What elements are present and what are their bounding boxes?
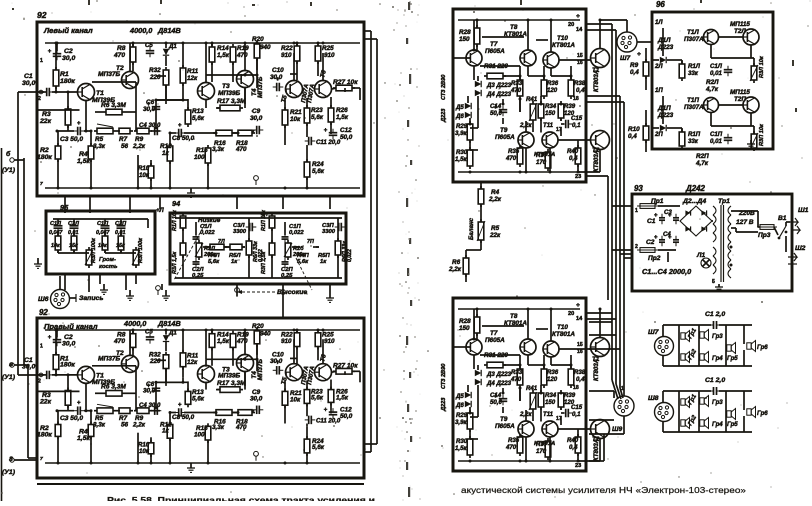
svg-text:150: 150 (459, 325, 470, 332)
svg-text:+: + (276, 359, 280, 366)
G2 label C1 2.0 (705, 377, 725, 384)
svg-text:150: 150 (545, 110, 556, 117)
OL label R31 220 (484, 63, 508, 70)
R2 wire R27 out (352, 371, 360, 382)
R2 capacitor C4 30.0 (151, 406, 162, 415)
L1 label T6 (319, 69, 328, 78)
svg-text:1П: 1П (655, 87, 663, 94)
OL wire grid mesh out (453, 20, 600, 172)
block frame 92 left channel (37, 22, 364, 196)
svg-text:R29: R29 (456, 123, 468, 130)
svg-text:7: 7 (40, 456, 43, 462)
wire psu int2 (658, 249, 676, 251)
wire terminal v (10, 363, 28, 367)
OL label T11 (543, 122, 554, 129)
svg-text:33к: 33к (688, 138, 699, 145)
svg-text:Ш1: Ш1 (798, 207, 809, 214)
L1 capacitor C1 input (37, 88, 53, 97)
label pin7П (307, 239, 314, 245)
G1 wire spk v5 (725, 347, 727, 349)
svg-text:Гр4: Гр4 (712, 421, 723, 428)
label C2 (646, 239, 655, 246)
svg-text:2,2к: 2,2к (132, 143, 146, 150)
G1 wire spk v4 (743, 325, 745, 366)
L1 capacitor C5 (145, 42, 154, 57)
svg-text:+: + (48, 334, 52, 341)
svg-text:Т9: Т9 (500, 416, 508, 423)
resistor R6Л tone (246, 238, 252, 258)
R2 capacitor C5 (145, 329, 154, 344)
OR resistor R37 170 (545, 438, 551, 460)
svg-text:В1: В1 (778, 215, 787, 222)
svg-text:С11 20,0: С11 20,0 (316, 139, 341, 146)
transistor T1П (704, 98, 719, 113)
wire mid bus v2 (615, 30, 617, 250)
L1 transistor T2 (122, 72, 139, 89)
G1 wire spk left (662, 325, 664, 366)
svg-text:С14: С14 (490, 392, 502, 399)
L1 resistor R5 3.3k (94, 124, 116, 134)
resistor R4Л tone (207, 244, 227, 250)
wire right bus stub top1 (364, 30, 371, 32)
R2 label T6 (319, 353, 328, 362)
R2 resistor R11 12k (180, 330, 186, 378)
svg-text:10к: 10к (139, 172, 150, 179)
label 92 (module id, left amp) (37, 10, 47, 20)
OR label T7 P605A (485, 330, 505, 344)
OR transistor T10 (543, 341, 559, 357)
G1 speaker Gr6 (747, 341, 769, 352)
L1 resistor R10 10k (148, 160, 154, 188)
top edge marks (12, 0, 797, 112)
svg-text:Гр6: Гр6 (757, 410, 768, 417)
L1 transistor T3 (198, 83, 215, 100)
page fold marks (406, 2, 412, 497)
R2 label R19 (236, 331, 249, 344)
OL resistor R34 150 (538, 101, 557, 121)
G2 speaker Gr4 (700, 418, 724, 429)
svg-text:С14: С14 (490, 103, 502, 110)
svg-text:Д1П: Д1П (657, 105, 671, 112)
wire protЛ b (667, 60, 682, 64)
wire interbox b4 (161, 284, 163, 290)
R2 wire R6 loop top (92, 366, 136, 411)
OR resistor R39 120 (558, 390, 576, 410)
svg-text:120: 120 (547, 376, 558, 383)
svg-text:С12: С12 (340, 127, 352, 134)
label C1Л (50, 221, 61, 227)
R2 label T5 (280, 376, 289, 385)
wire psu feed4 (624, 257, 632, 259)
svg-text:5,6к: 5,6к (312, 444, 325, 451)
svg-text:0,022: 0,022 (289, 230, 304, 236)
R2 wire fb drop (137, 433, 139, 463)
svg-text:180к: 180к (37, 431, 52, 438)
svg-text:5,6к: 5,6к (311, 395, 324, 402)
svg-text:0,047: 0,047 (96, 230, 110, 236)
OL wire out links2 (466, 57, 470, 59)
svg-text:0,022: 0,022 (347, 249, 353, 262)
OL wire out v7 (473, 66, 475, 80)
potentiometer R2Л tone (195, 240, 203, 260)
OL capacitor C14 50.0 (490, 103, 507, 117)
ground sym E (326, 292, 334, 302)
G1 connector Ш7 (655, 337, 674, 356)
resistor R3П 10k (750, 123, 765, 151)
svg-text:R10: R10 (628, 126, 640, 133)
wire protП a (662, 96, 664, 124)
label C3П tone (322, 223, 336, 235)
wire psu feed2 (612, 205, 632, 207)
svg-text:R14: R14 (217, 45, 229, 52)
svg-text:910: 910 (324, 338, 335, 345)
svg-text:Д5: Д5 (455, 104, 464, 111)
L1 label R26 (336, 107, 349, 121)
wire mid bus low3 (620, 254, 623, 398)
R2 resistor R27 10k (333, 369, 355, 375)
svg-text:15к: 15к (69, 243, 78, 249)
OR label T9 P605A (495, 416, 515, 430)
svg-text:Т9: Т9 (500, 127, 508, 134)
ground sym C (126, 290, 134, 300)
L1 resistor R22 910 (294, 43, 300, 80)
R2 label R32 220 (149, 352, 161, 365)
resistor R9 0.4 (643, 59, 649, 79)
svg-text:4000,0: 4000,0 (129, 26, 152, 35)
R2 resistor R12 1k (167, 422, 173, 464)
capacitor C1Л 0.01 (710, 63, 732, 77)
svg-text:1: 1 (635, 208, 638, 214)
label C2П tone (281, 267, 293, 279)
label R6Л rot (253, 241, 264, 262)
transformer Tr1 secondary (728, 206, 731, 278)
label R1П val (98, 243, 107, 249)
label pin1 psu (635, 208, 638, 214)
svg-text:Д223: Д223 (657, 112, 674, 119)
svg-text:МП37Б: МП37Б (257, 76, 264, 98)
transformer Tr1 core (721, 205, 724, 282)
svg-text:1к: 1к (231, 259, 238, 265)
svg-text:+: + (324, 127, 328, 134)
L1 label R24 (312, 161, 325, 175)
L1 wire emitter bus (57, 101, 160, 132)
resistor R1Л 33k (679, 61, 701, 81)
svg-text:П605А: П605А (485, 48, 505, 55)
svg-text:14: 14 (576, 27, 583, 33)
svg-text:С10: С10 (272, 67, 284, 74)
svg-text:220: 220 (149, 74, 161, 81)
capacitor C1П tone sym (282, 233, 289, 243)
wire mid stub4 (586, 101, 624, 103)
svg-text:1,5к: 1,5к (77, 158, 90, 165)
svg-text:15: 15 (577, 342, 583, 348)
L1 diode D1 zener (163, 43, 178, 66)
wire 95 out stub2 (135, 274, 137, 284)
label C1C4 2000 (642, 267, 691, 276)
svg-text:30,0: 30,0 (62, 55, 75, 62)
label R3П 100k rot (138, 237, 144, 263)
wire psu feed1 (612, 249, 632, 251)
L1 label C2 (62, 48, 75, 62)
svg-text:33к: 33к (688, 70, 699, 77)
G2 speaker Gr1 (681, 393, 699, 408)
svg-text:Д1Л: Д1Л (657, 37, 671, 44)
R2 resistor R24 5.6k (304, 426, 310, 463)
wire psu sh2 drop (785, 236, 787, 252)
svg-text:R30: R30 (456, 438, 468, 445)
OR label pin18 (573, 385, 579, 391)
svg-text:1: 1 (621, 386, 624, 392)
wire interbox b3 (125, 274, 127, 290)
wire psu int3 (712, 220, 713, 222)
R2 resistor R9 2.2k (134, 408, 152, 414)
svg-text:КТ803А: КТ803А (593, 70, 600, 92)
svg-text:МП37Б: МП37Б (98, 355, 121, 362)
label plus sh7 (637, 51, 641, 58)
L1 wire stage2 links (156, 100, 254, 133)
svg-text:16: 16 (577, 60, 583, 66)
R2 label R18 (235, 419, 248, 432)
L1 resistor R12 1k (167, 143, 173, 188)
wire protЛ a (662, 28, 664, 56)
OR transistor T11 (542, 421, 558, 437)
svg-text:0,4: 0,4 (628, 133, 637, 140)
transformer Tr1 primary (713, 206, 716, 242)
L1 label R11 12k (187, 68, 199, 82)
OR label pin16 (577, 349, 583, 355)
svg-text:1к: 1к (162, 428, 170, 435)
svg-text:+: + (654, 212, 658, 219)
ground sym D (162, 290, 170, 300)
connector Sh7 amp (617, 32, 637, 52)
svg-text:0,4: 0,4 (569, 155, 578, 162)
svg-text:10к: 10к (98, 243, 107, 249)
OL resistor R37 170 (545, 149, 551, 171)
text Левый канал (43, 26, 93, 35)
svg-text:С2: С2 (64, 48, 73, 55)
OR transistor T1 KT803A (591, 338, 610, 357)
L1 wire T4 links (216, 43, 257, 108)
L1 resistor R17 (217, 105, 243, 111)
svg-text:Ш6: Ш6 (38, 296, 49, 303)
OL transistor T8 (520, 50, 536, 66)
svg-text:3,3к: 3,3к (212, 146, 225, 153)
L1 label T4 vertical (251, 76, 264, 98)
wire protП b (667, 128, 682, 132)
OR resistor R34 150 (538, 390, 557, 410)
svg-text:30,0: 30,0 (143, 106, 156, 113)
svg-text:С1: С1 (647, 218, 656, 225)
label Pr3 (758, 232, 771, 239)
L1 transistor T1 (78, 84, 95, 101)
OR label T2 KT803A (592, 436, 600, 461)
OL diode D3 (475, 81, 512, 89)
svg-text:Рис. 5.58. Принципиальная схе: Рис. 5.58. Принципиальная схема тракта у… (107, 495, 375, 501)
OL resistor R39 120 (558, 101, 576, 121)
svg-text:Д6: Д6 (455, 113, 464, 120)
svg-text:Д1: Д1 (168, 43, 177, 50)
svg-text:R5: R5 (95, 136, 104, 143)
svg-text:30,0: 30,0 (143, 387, 156, 394)
svg-text:R33: R33 (511, 369, 523, 376)
OL label ST3 2V90 vertical (441, 74, 447, 100)
svg-text:R35: R35 (508, 148, 520, 155)
L1 transistor T5 (286, 81, 303, 98)
OR diode D6 (455, 401, 471, 409)
svg-text:МП37Б: МП37Б (98, 71, 121, 78)
wire sh9 stub b (589, 334, 616, 336)
wire mid bus v4 (623, 102, 625, 258)
label 1Л (655, 19, 663, 26)
svg-text:R4: R4 (491, 189, 500, 196)
svg-text:0,1: 0,1 (572, 411, 581, 418)
R2 label R12 (160, 421, 172, 434)
label 1П (655, 87, 663, 94)
R2 capacitor C6 30.0 (143, 381, 160, 395)
label R2П val (116, 243, 125, 249)
OL transistor T11 (542, 132, 558, 148)
svg-text:4Л: 4Л (260, 212, 268, 218)
OR wire col T1 (599, 309, 601, 337)
R2 resistor R19 470 (230, 331, 236, 360)
OR resistor R30 1.5k (455, 436, 473, 458)
svg-text:П307А: П307А (684, 36, 704, 43)
R2 label R23 (311, 388, 324, 401)
OL capacitor C15 0.1 (562, 115, 583, 129)
svg-text:R28: R28 (459, 29, 471, 36)
svg-text:С8 50,0: С8 50,0 (172, 135, 195, 142)
resistor R5 22k balance (477, 219, 501, 243)
label C2Л (68, 221, 79, 227)
svg-text:СТ3 2В90: СТ3 2В90 (441, 74, 447, 100)
resistor R2Л vol (71, 233, 77, 253)
potentiometer R2П tone (284, 240, 292, 260)
svg-text:R3Л 1,5к: R3Л 1,5к (172, 252, 178, 274)
svg-text:R36: R36 (547, 369, 559, 376)
OR wire out bottom rail (458, 460, 580, 462)
L1 label R1 (60, 71, 75, 85)
OR wire emitters (526, 437, 600, 461)
wire psu bottom link (667, 252, 669, 262)
svg-text:Пр3: Пр3 (758, 232, 771, 239)
OR block frame output stage (453, 298, 586, 471)
wire psu right3 (786, 222, 790, 226)
L1 label T5 (280, 94, 289, 103)
OL wire emitters (526, 148, 600, 172)
OL transistor T9 (518, 132, 534, 148)
wire mid stub2 (586, 29, 616, 31)
OR capacitor C15 0.1 (562, 404, 583, 418)
svg-text:3300: 3300 (322, 229, 336, 235)
resistor R1Л tone (172, 210, 186, 231)
wire left margin v2 (23, 158, 25, 365)
OL label T9 P605A (495, 127, 515, 141)
R2 label R16 (212, 419, 226, 432)
L1 resistor R3 (65, 92, 71, 131)
OL resistor R38 0.4 (568, 77, 586, 99)
svg-text:940: 940 (260, 44, 271, 51)
label Balans vertical (468, 217, 475, 240)
wire toneП h1 (292, 246, 319, 248)
L1 label R8 470 (113, 45, 126, 59)
svg-text:+: + (576, 302, 580, 309)
svg-text:С1...С4 2000,0: С1...С4 2000,0 (642, 267, 691, 276)
svg-text:кость: кость (99, 264, 118, 270)
svg-text:Ш8: Ш8 (648, 395, 659, 402)
label C1Л tone (200, 224, 215, 236)
svg-text:910: 910 (324, 52, 335, 59)
R2 label R7 (119, 415, 129, 428)
L1 capacitor C4 30.0 (151, 127, 162, 136)
L1 label R7 (119, 136, 129, 150)
L1 resistor R7 56 (116, 128, 133, 134)
label 95 (60, 203, 69, 212)
L1 resistor R1 (53, 43, 59, 92)
svg-text:R23: R23 (311, 107, 323, 114)
L1 label T1 (92, 90, 115, 104)
svg-text:220: 220 (149, 358, 161, 365)
OL transistor T10 (543, 52, 559, 68)
svg-text:10к: 10к (290, 397, 301, 404)
svg-text:П605А: П605А (485, 337, 505, 344)
svg-text:Т1Л: Т1Л (687, 29, 699, 36)
G1 speaker Gr1 (681, 327, 699, 342)
R2 resistor R5 3.3k (94, 404, 116, 413)
R2 label R15 (194, 425, 208, 438)
label Sh9 (612, 426, 622, 433)
svg-text:С5: С5 (145, 329, 153, 336)
R2 label R5 (93, 415, 106, 428)
OL label T11 type (534, 152, 555, 158)
block frame 94 (170, 213, 346, 284)
potentiometer R3Л 100k (85, 247, 93, 268)
R2 ground bottom rail (187, 463, 195, 472)
svg-text:30,0: 30,0 (22, 80, 35, 87)
page left edge line (1, 148, 3, 501)
svg-text:470: 470 (505, 444, 517, 451)
svg-text:1,5к: 1,5к (217, 338, 230, 345)
svg-text:R24: R24 (312, 161, 324, 168)
svg-text:1: 1 (40, 343, 43, 349)
label Sh6 (38, 296, 49, 303)
label C3Л tone (233, 223, 247, 235)
OL label T7 P605A (485, 41, 505, 55)
G1 wire spk v1 (678, 325, 680, 366)
svg-text:910: 910 (281, 338, 292, 345)
L1 resistor R4 (88, 131, 94, 188)
R2 label R1 (60, 355, 75, 368)
svg-text:R41: R41 (526, 96, 538, 103)
R2 label R13 (192, 389, 205, 402)
R2 wire emitter bus (57, 383, 160, 411)
svg-text:2,2к: 2,2к (448, 266, 462, 273)
capacitor C2П (117, 219, 126, 236)
transistor T2Л (743, 29, 759, 45)
svg-text:1,5к: 1,5к (77, 435, 90, 442)
R2 label R10 10k (138, 442, 150, 455)
wire toneП v1 (271, 228, 273, 278)
svg-text:С15: С15 (571, 404, 583, 411)
svg-text:0,1: 0,1 (572, 122, 581, 129)
lamp L1 (696, 252, 711, 268)
wire psu right2 (774, 227, 778, 235)
capacitor C1Л tone sym (193, 233, 200, 243)
L1 label R20 (252, 36, 271, 51)
G2 wire spk v3 (725, 391, 727, 432)
label Sh2 (795, 245, 806, 252)
svg-text:Д3 Д223: Д3 Д223 (486, 82, 512, 89)
L1 capacitor C9 30.0 (250, 108, 263, 134)
